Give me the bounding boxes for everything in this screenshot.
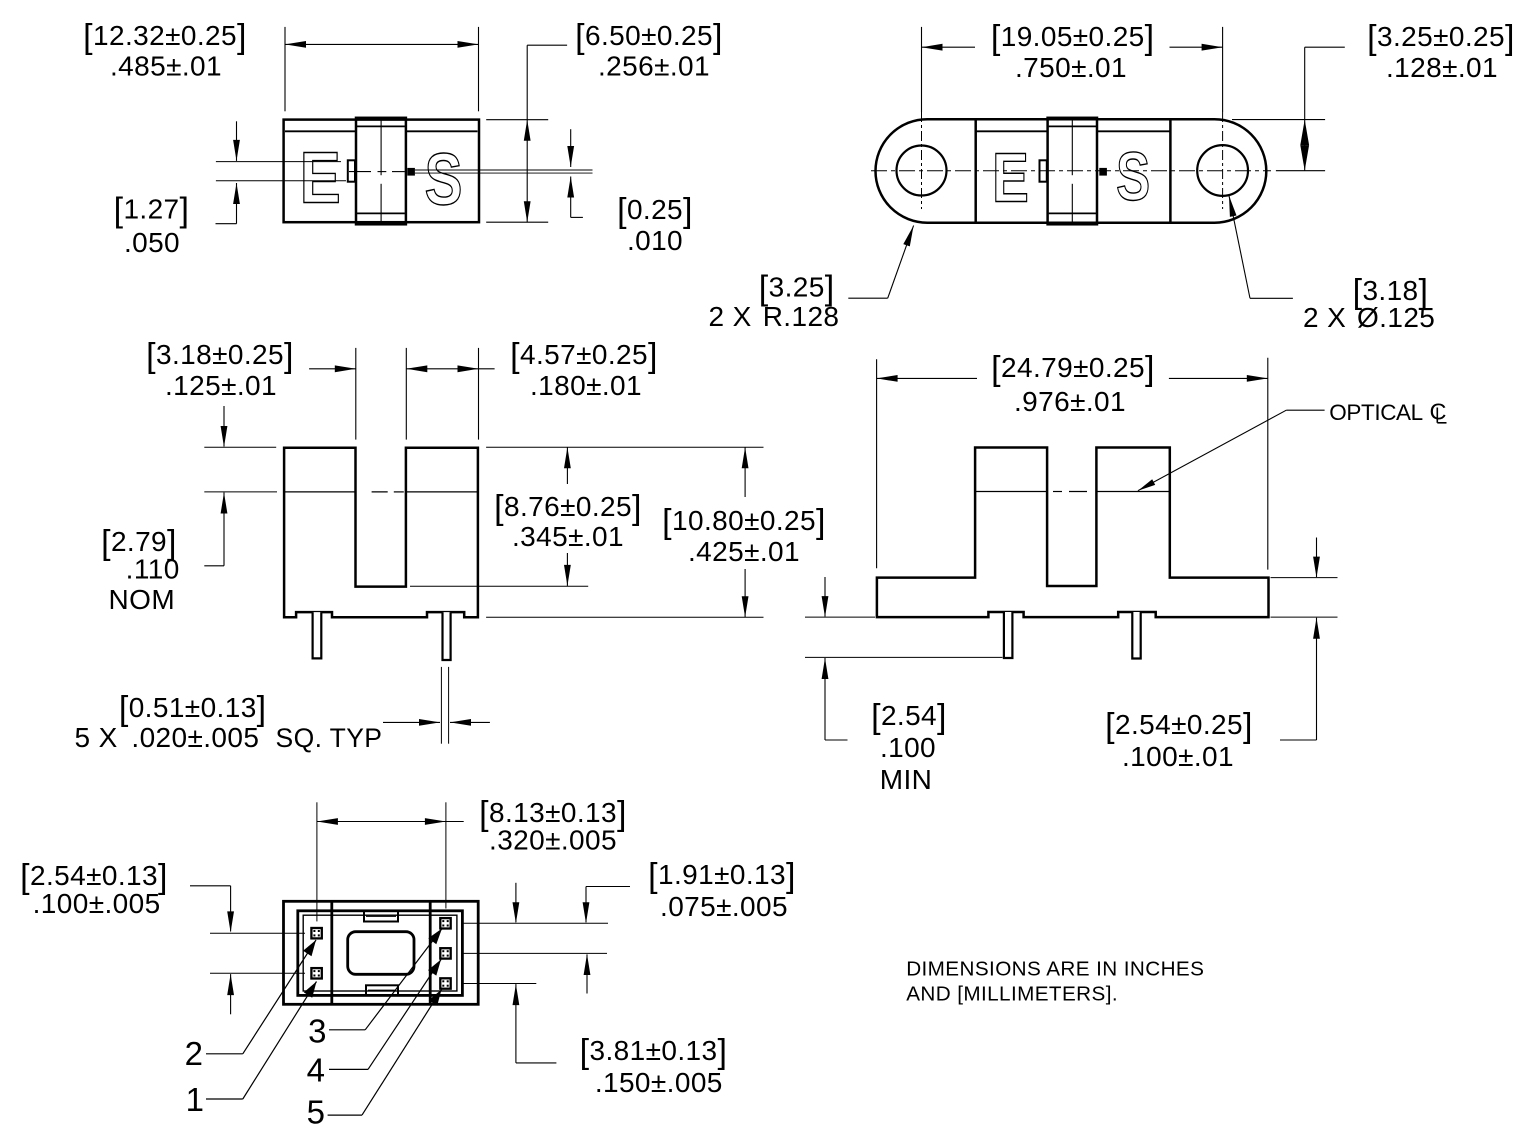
dim 2.54 right arrows (1280, 538, 1320, 741)
svg-text:[1.91±0.13]: [1.91±0.13] (648, 857, 796, 895)
svg-text:5: 5 (307, 1093, 326, 1130)
svg-text:.050: .050 (124, 227, 180, 258)
svg-text:.020±.005: .020±.005 (131, 722, 259, 753)
view A optical centerline dashes (349, 171, 405, 173)
view A inner top line right block (407, 130, 478, 132)
dim 24.79 extension lines (877, 358, 1268, 570)
pin 3 leader (308, 929, 442, 1050)
dim 2.54 MIN arrows (822, 577, 848, 740)
dim 3.81 arrows (513, 883, 557, 1063)
view B left hole crosshair (921, 112, 923, 209)
view A center tower (356, 118, 406, 225)
svg-text:2: 2 (185, 1035, 204, 1072)
dim 8.13 text (479, 795, 627, 856)
svg-text:S: S (425, 139, 463, 220)
dim 10.80 text (662, 503, 826, 567)
dim 19.05 extension lines (922, 27, 1223, 112)
svg-text:.150±.005: .150±.005 (595, 1067, 723, 1098)
view B sensor aperture dot (1099, 168, 1107, 176)
dim 10.80 extension line bottom (486, 616, 763, 618)
note dimensions units (906, 958, 1204, 1006)
svg-text:.320±.005: .320±.005 (489, 825, 617, 856)
view B letter E (992, 139, 1029, 217)
svg-text:.976±.01: .976±.01 (1014, 386, 1126, 417)
label R.128 text (709, 270, 840, 333)
view B inner top line right block (1098, 130, 1171, 132)
view C right pin (443, 612, 451, 660)
svg-text:DIMENSIONS ARE IN INCHES: DIMENSIONS ARE IN INCHES (906, 958, 1204, 981)
svg-text:2 X: 2 X (1303, 302, 1346, 333)
svg-text:.180±.01: .180±.01 (530, 370, 642, 401)
view A tower inner top line (357, 125, 405, 127)
dim 1.91 text (648, 857, 796, 922)
view D left pin (1004, 612, 1013, 658)
dim 8.13 dimension line (317, 818, 464, 825)
view A package body outline (284, 120, 479, 223)
svg-text:[24.79±0.25]: [24.79±0.25] (991, 350, 1155, 388)
svg-text:R.128: R.128 (763, 301, 840, 332)
svg-text:[2.54±0.25]: [2.54±0.25] (1105, 707, 1253, 745)
dim 2.54 right extension lines (1271, 578, 1338, 618)
svg-text:.010: .010 (627, 225, 683, 256)
view E outer outline (284, 901, 479, 1004)
view C top extension line right (486, 446, 763, 448)
dim 0.51 text (75, 690, 383, 753)
view B body left edge (974, 119, 977, 223)
dim 4.57 text (510, 337, 658, 401)
view A aperture extension line upper (216, 161, 341, 163)
svg-text:.100: .100 (880, 732, 936, 763)
view E center window (348, 932, 414, 975)
view B stadium outline (875, 119, 1266, 223)
dim 3.25 dimension line (1300, 47, 1345, 170)
dim 6.50 extension lines (486, 120, 548, 223)
view C optical extension left (204, 491, 277, 493)
svg-text:[3.81±0.13]: [3.81±0.13] (580, 1033, 728, 1071)
view B letter S (1116, 138, 1150, 215)
svg-text:.750±.01: .750±.01 (1015, 52, 1127, 83)
svg-text:AND [MILLIMETERS].: AND [MILLIMETERS]. (906, 982, 1118, 1005)
svg-text:.110: .110 (126, 554, 180, 585)
view A tower inner bottom line (357, 212, 405, 214)
dim 1.27 arrows (216, 121, 240, 223)
view B tower vertical centerline (1071, 119, 1073, 224)
dim 1.91 arrows (583, 887, 630, 994)
dim 6.50 text (575, 18, 723, 82)
svg-text:OPTICAL: OPTICAL (1329, 400, 1422, 425)
svg-text:.425±.01: .425±.01 (688, 536, 800, 567)
dim 8.76 extension line (410, 585, 588, 587)
dim 0.25 arrows (567, 129, 583, 217)
dim 12.32 dimension line (285, 41, 479, 48)
view E pin 4 pad (440, 948, 450, 958)
svg-text:SQ. TYP: SQ. TYP (276, 723, 383, 753)
view B right mounting hole (1197, 145, 1248, 196)
view C body outline (284, 448, 478, 618)
view A letter S (425, 139, 463, 220)
svg-text:.075±.005: .075±.005 (660, 891, 788, 922)
dim 19.05 dimension line (922, 44, 1223, 51)
dim 3.18 slot extension lines (356, 348, 479, 440)
dim 2.79 text (101, 524, 180, 615)
svg-text:Ø.125: Ø.125 (1357, 302, 1435, 333)
view E right divider (429, 901, 432, 1004)
svg-text:.485±.01: .485±.01 (110, 51, 222, 82)
svg-text:[1.27]: [1.27] (114, 192, 190, 230)
view E pin 2 pad (311, 928, 321, 938)
pin 2 leader (185, 940, 316, 1072)
svg-text:[2.54]: [2.54] (871, 698, 947, 736)
dim 12.32 extension lines (285, 27, 479, 111)
pin 5 leader (307, 990, 442, 1131)
view C top extension line left (204, 446, 276, 448)
dim 2.79 arrows (204, 406, 227, 566)
view E inner cavity line (303, 915, 457, 991)
view E left extension lines (210, 933, 305, 973)
dim 2.54 MIN text (871, 698, 947, 795)
dim 8.76 dimension line (564, 447, 571, 586)
dim 0.51 extension lines (441, 667, 448, 744)
dim 3.18 slot arrow (309, 365, 356, 372)
dim 24.79 dimension line (877, 375, 1268, 382)
view B horizontal centerline (871, 170, 1271, 172)
view D body outline (877, 448, 1269, 618)
view E bottom tab (366, 985, 398, 995)
leader R.128 (848, 226, 913, 299)
view B left mounting hole (897, 146, 947, 196)
dim 3.25 text (1367, 19, 1515, 83)
svg-text:5 X: 5 X (75, 722, 118, 753)
dim 3.81 text (580, 1033, 728, 1098)
svg-text:.125±.01: .125±.01 (165, 370, 277, 401)
view D optical line (975, 491, 1170, 493)
svg-text:3: 3 (308, 1013, 327, 1050)
svg-text:.128±.01: .128±.01 (1386, 52, 1498, 83)
svg-text:NOM: NOM (109, 584, 176, 615)
dim 3.25 extension lines (1232, 120, 1325, 171)
svg-text:E: E (992, 139, 1029, 217)
svg-text:4: 4 (307, 1051, 326, 1088)
view A aperture extension line lower (216, 180, 346, 182)
view B tower inner top line (1049, 125, 1096, 127)
view E pin 1 pad (311, 968, 321, 978)
view A sensor aperture dot (407, 168, 415, 176)
svg-text:E: E (300, 138, 341, 218)
dim 2.54 MIN extension lines (805, 617, 1003, 657)
dim 6.50 dimension line (524, 45, 567, 222)
svg-text:MIN: MIN (880, 764, 933, 795)
label dia .125 text (1303, 273, 1435, 333)
view A letter E (300, 138, 341, 218)
dim 0.51 arrows (383, 719, 490, 726)
dim 0.25 text (617, 192, 693, 256)
view A sensor slit line upper (415, 169, 593, 171)
view A inner top line left block (285, 130, 355, 132)
dim 2.54 right text (1105, 707, 1253, 772)
view E pin 3 pad (440, 918, 450, 928)
leader optical centerline (1138, 410, 1325, 491)
view E inner outline (298, 911, 463, 996)
view B inner top line left block (976, 130, 1047, 132)
view D right pin (1132, 612, 1140, 659)
view A emitter aperture tab (348, 160, 355, 181)
label OPTICAL CL (1329, 399, 1446, 426)
view A sensor slit line lower (415, 172, 593, 174)
view B tower inner bottom line (1049, 212, 1096, 214)
dim 1.27 text (114, 192, 190, 259)
dim 8.13 extension lines (317, 802, 446, 921)
dim 24.79 text (991, 350, 1155, 417)
view E right extension lines (463, 923, 608, 983)
dim 8.76 text (494, 489, 642, 552)
view C left pin (313, 612, 322, 658)
svg-text:.256±.01: .256±.01 (598, 51, 710, 82)
view E pin 5 pad (440, 978, 450, 988)
view E top tab (364, 911, 398, 922)
dim 2.54 bottom text (20, 858, 168, 919)
pin 4 leader (307, 960, 441, 1089)
view B emitter aperture tab (1040, 160, 1047, 181)
view A tower vertical centerline (380, 119, 382, 224)
svg-text:1: 1 (186, 1081, 205, 1118)
view B body right edge (1169, 119, 1172, 223)
dim 12.32 text (83, 18, 247, 82)
dim 4.57 dimension line (406, 365, 494, 372)
dim 19.05 text (991, 19, 1155, 83)
view B right hole crosshair (1222, 112, 1224, 209)
leader dia .125 (1229, 196, 1293, 299)
dim 10.80 dimension line (742, 447, 749, 617)
view C optical line (284, 491, 478, 493)
view B center tower (1048, 118, 1097, 225)
svg-text:S: S (1116, 138, 1150, 215)
svg-text:.345±.01: .345±.01 (512, 521, 624, 552)
dim 2.54 bottom leader (190, 886, 234, 1015)
view E left divider (330, 901, 333, 1004)
pin 1 leader (186, 982, 317, 1119)
dim 3.18 slot text (146, 337, 294, 401)
svg-text:.100±.01: .100±.01 (1122, 741, 1234, 772)
svg-text:2 X: 2 X (709, 301, 752, 332)
svg-text:.100±.005: .100±.005 (33, 888, 161, 919)
